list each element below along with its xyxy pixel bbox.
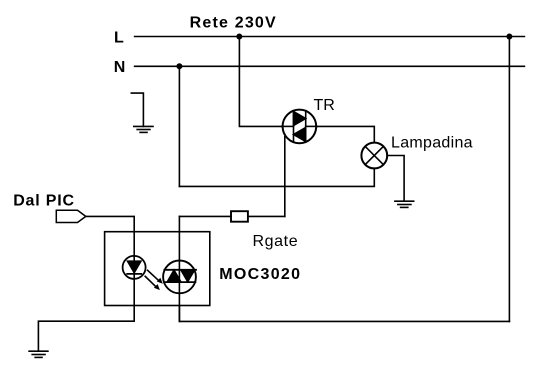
- lamp Lampadina: [361, 143, 387, 169]
- wire lamp bottom return: [179, 168, 374, 186]
- wire lamp right to earth: [387, 156, 404, 202]
- wire LED cathode to ground: [38, 321, 134, 351]
- wire right rail: [508, 37, 510, 322]
- wire from L down to triac A1: [239, 37, 281, 127]
- earth symbol near N: [131, 93, 153, 132]
- optocoupler U1 MOC3020 box: [105, 232, 210, 306]
- svg-text:L: L: [114, 30, 124, 47]
- node junction on L at triac branch: [236, 34, 242, 40]
- light arrow 2: [145, 276, 160, 290]
- resistor Rgate: [231, 211, 248, 222]
- ground at lamp: [395, 201, 414, 207]
- svg-text:TR: TR: [314, 97, 335, 114]
- triac TR: [282, 110, 318, 144]
- svg-text:Rete 230V: Rete 230V: [190, 14, 277, 31]
- node junction on L at right rail: [506, 34, 512, 40]
- wire resistor to MOC triac: [179, 215, 231, 217]
- svg-text:N: N: [114, 59, 126, 76]
- wire bottom rail: [179, 306, 509, 322]
- LED inside MOC: [123, 256, 146, 279]
- wire triac gate lead: [284, 137, 286, 217]
- ground at LED: [29, 351, 48, 357]
- light arrow 1: [148, 270, 163, 284]
- wire N line: [135, 65, 525, 67]
- node junction on N at branch: [176, 63, 182, 69]
- svg-text:Rgate: Rgate: [253, 233, 299, 250]
- wire L line: [135, 36, 525, 38]
- wire N drop: [178, 66, 180, 186]
- wire gate to resistor: [248, 215, 285, 217]
- connector tag Dal PIC: [56, 210, 86, 222]
- svg-text:MOC3020: MOC3020: [219, 266, 301, 283]
- wire Dal PIC to LED: [86, 216, 135, 321]
- wire triac A2 to lamp: [317, 126, 374, 142]
- svg-text:Lampadina: Lampadina: [391, 134, 473, 151]
- photo-triac inside MOC: [163, 261, 196, 294]
- svg-text:Dal PIC: Dal PIC: [13, 192, 75, 209]
- wire MOC triac lead vertical: [178, 216, 180, 321]
